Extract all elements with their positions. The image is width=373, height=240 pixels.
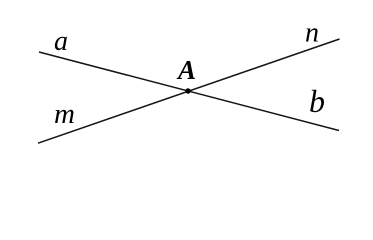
svg-text:A: A [176,55,196,85]
svg-text:a: a [54,26,68,57]
line a-b (through point A, label a top-left, label b bottom-right) [39,52,339,131]
svg-text:n: n [305,18,319,49]
line m-n (through point A, label m bottom-left, label n top-right) [38,39,340,143]
point A dot [185,88,190,93]
svg-text:b: b [309,83,325,119]
svg-text:m: m [54,98,75,130]
